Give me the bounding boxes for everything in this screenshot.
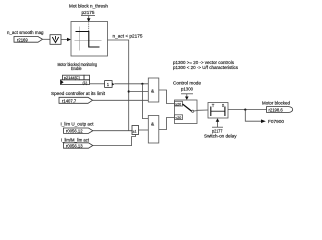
svg-text:Speed controller at its limit: Speed controller at its limit <box>51 91 106 96</box>
svg-text:r2169: r2169 <box>17 37 28 42</box>
node junction comparator to AND1 <box>128 90 130 92</box>
switch block <box>175 100 198 124</box>
wire p2144 to 1-block <box>90 83 105 85</box>
binector input p2144[C] <box>61 75 90 84</box>
wire r0056.12 to OR <box>93 130 132 132</box>
wire switch to timer <box>197 109 208 111</box>
node junction output branch <box>244 109 246 111</box>
svg-text:T: T <box>212 103 215 108</box>
abs value block |x| <box>50 35 61 45</box>
svg-text:<20: <20 <box>175 116 181 120</box>
svg-text:r2198.6: r2198.6 <box>269 108 284 113</box>
wire r1407.7 to AND1 input3 <box>93 99 149 101</box>
svg-text:Switch-on delay: Switch-on delay <box>204 134 237 139</box>
switch arm <box>183 104 192 111</box>
wire p2175 down arrow <box>81 15 95 17</box>
wire abs to comparator with arrowhead <box>61 39 68 41</box>
svg-text:≥20: ≥20 <box>175 102 181 106</box>
wire p2177 up arrow <box>212 126 223 128</box>
wire AND1 output to switch <box>159 90 175 104</box>
svg-text:Mot block n_thresh: Mot block n_thresh <box>69 3 108 8</box>
connector r1407.7 <box>59 97 93 103</box>
wire enable H1 to AND1 input1 <box>114 83 148 85</box>
block 1 <box>105 81 113 88</box>
connector r0056.12 <box>64 128 93 133</box>
wire r0056.13 staircase to OR bottom <box>93 135 136 146</box>
svg-text:p2175: p2175 <box>82 10 95 15</box>
wire V1 branch to AND1 input2 <box>129 91 149 93</box>
connector r2169 <box>14 37 43 43</box>
gate AND1 <box>148 78 159 102</box>
svg-text:r1407.7: r1407.7 <box>62 98 77 103</box>
svg-text:I_lim/M_lim act: I_lim/M_lim act <box>61 137 90 142</box>
wire AND2 output to switch <box>159 118 175 130</box>
svg-text:Enable: Enable <box>71 66 82 71</box>
wire branch to F07900 <box>245 110 261 122</box>
gate OR <box>132 126 139 135</box>
connector r2198.6 <box>267 107 293 113</box>
svg-text:n_act smooth mag: n_act smooth mag <box>7 30 44 35</box>
wire OR to AND2 input2 <box>139 129 149 131</box>
connector r0056.13 <box>64 143 93 148</box>
timer block p2177 <box>208 103 228 119</box>
comparator block U1 <box>71 22 108 57</box>
wire V2 enable branch down to AND2 input1 <box>142 84 148 119</box>
svg-text:r0056.12: r0056.12 <box>66 129 83 134</box>
svg-text:I_lim U_outp act: I_lim U_outp act <box>61 122 95 127</box>
svg-text:(1): (1) <box>83 80 88 85</box>
svg-text:p1300: p1300 <box>181 87 193 92</box>
wire timer output <box>228 109 267 111</box>
wire p1300 down arrow <box>181 93 193 95</box>
svg-text:Control mode: Control mode <box>173 81 201 86</box>
wire r2169 to abs block <box>43 38 51 40</box>
svg-text:n_act < p2175: n_act < p2175 <box>113 33 143 38</box>
node junction enable branch <box>141 83 143 85</box>
svg-text:F07900: F07900 <box>268 119 284 124</box>
svg-text:r0056.13: r0056.13 <box>66 144 83 149</box>
wire comparator output to V1 <box>108 40 129 131</box>
svg-text:Motor blocked: Motor blocked <box>262 100 290 105</box>
gate AND2 <box>148 116 159 144</box>
svg-text:p1300 < 20 -> U/f characterist: p1300 < 20 -> U/f characteristics <box>173 65 239 70</box>
svg-text:p2144[C]: p2144[C] <box>64 75 80 80</box>
svg-text:≥1: ≥1 <box>133 129 137 133</box>
